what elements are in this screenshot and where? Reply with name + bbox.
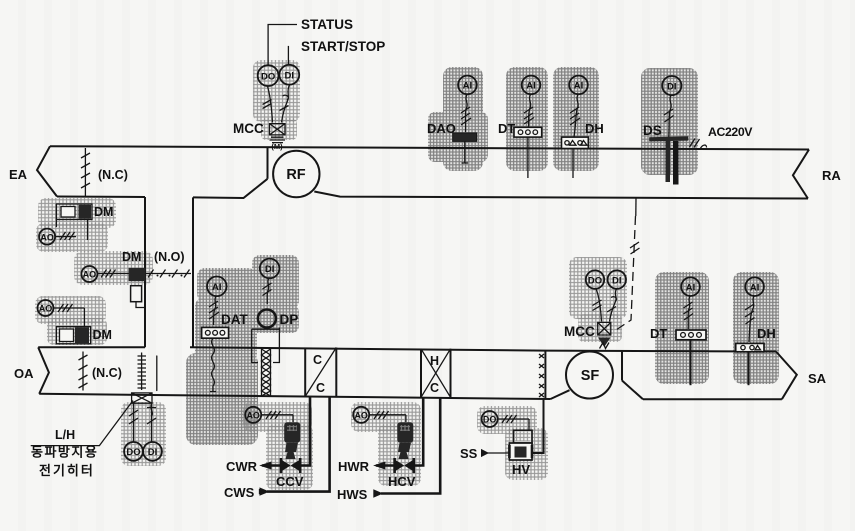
svg-text:CWR: CWR <box>226 459 258 474</box>
middle DM hatch ticks <box>148 270 190 278</box>
DT sensor box <box>514 127 542 137</box>
motor symbol SF <box>598 338 611 348</box>
svg-text:HV: HV <box>512 462 530 477</box>
DS probe bars <box>666 141 671 182</box>
svg-text:DI: DI <box>285 70 295 81</box>
HV actuator <box>514 430 532 443</box>
svg-text:AO: AO <box>354 411 368 421</box>
filter OA duct <box>262 348 271 396</box>
halo SA DT group <box>655 272 709 384</box>
DH sensor box <box>562 137 589 148</box>
svg-text:SS: SS <box>460 446 478 461</box>
svg-text:(N.C): (N.C) <box>92 366 122 380</box>
DO circle heater <box>124 442 143 461</box>
svg-text:AI: AI <box>526 81 536 92</box>
AI circle SA DT <box>681 277 700 296</box>
SF outlet diagonal <box>622 381 643 400</box>
svg-text:STATUS: STATUS <box>301 17 353 32</box>
L/H pointer <box>31 401 133 446</box>
SS arrow and line <box>481 449 489 457</box>
halo SA DH group <box>733 272 779 384</box>
AI circle DH <box>569 76 588 95</box>
svg-text:DO: DO <box>261 71 275 82</box>
halo HCV group <box>351 402 421 432</box>
SA DH probe <box>748 352 750 385</box>
svg-text:DO: DO <box>483 415 497 425</box>
RA tail notch <box>793 150 809 199</box>
svg-text:AO: AO <box>246 411 260 421</box>
SA DH sensor box <box>736 343 764 351</box>
svg-text:AO: AO <box>40 232 54 242</box>
bottom duct bottom line right <box>643 398 782 400</box>
top duct EA-RA top line <box>50 146 809 149</box>
svg-text:DT: DT <box>650 326 667 341</box>
AO hatches CCV <box>261 411 293 419</box>
svg-text:AI: AI <box>750 282 760 293</box>
CCV actuator <box>284 422 300 442</box>
svg-text:DI: DI <box>265 264 275 275</box>
DH probe <box>572 149 574 179</box>
AO circle middle <box>81 266 97 282</box>
CCV valve body <box>281 460 300 472</box>
wire START/STOP to DI <box>287 46 289 65</box>
svg-text:AC220V: AC220V <box>708 125 753 139</box>
SA DT sensor box <box>676 330 706 340</box>
AO hatches lower-left <box>54 304 85 312</box>
wire DI to MCC SF <box>610 289 617 322</box>
AO circle lower-left <box>38 300 54 316</box>
DS slashes <box>690 139 700 148</box>
svg-text:동파방지용: 동파방지용 <box>31 445 98 460</box>
HCV actuator wire <box>405 415 407 422</box>
svg-text:RA: RA <box>822 168 841 183</box>
svg-text:MCC: MCC <box>233 121 264 136</box>
DI stem DP <box>267 278 269 304</box>
heater DO stem <box>133 403 135 441</box>
DO circle RF <box>258 65 279 86</box>
svg-text:DM: DM <box>93 328 112 342</box>
svg-text:H: H <box>430 354 439 368</box>
svg-text:HWS: HWS <box>337 487 368 502</box>
svg-text:AO: AO <box>83 270 97 280</box>
halo DH group <box>553 67 599 171</box>
DI circle heater <box>143 442 162 461</box>
heating coil H/C <box>421 349 451 398</box>
bottom duct top line main <box>190 347 776 351</box>
HCV valve body <box>395 460 414 472</box>
DI circle DS <box>662 76 681 95</box>
AO hatches upper-left <box>55 232 76 240</box>
DI stem DS <box>669 95 671 137</box>
HCV bonnet <box>398 443 411 459</box>
dashed signal line RA to SF MCC <box>635 199 637 217</box>
halo HV group <box>477 406 537 434</box>
halo DAO group <box>443 67 483 171</box>
DO circle HV <box>482 411 498 427</box>
AI circle DT <box>522 76 541 95</box>
EA arrow point <box>37 146 57 196</box>
AI circle SA DH <box>745 277 764 296</box>
SF outlet vertical <box>621 351 623 381</box>
halo middle DM(N.O) group <box>74 251 153 285</box>
svg-text:AI: AI <box>463 81 473 92</box>
svg-text:HWR: HWR <box>338 459 370 474</box>
svg-text:C: C <box>316 381 325 395</box>
DI circle DP <box>260 259 280 279</box>
wire DO to MCC <box>268 86 273 122</box>
SF inlet diagonal <box>551 390 570 399</box>
lower-left DM stem <box>83 308 85 327</box>
AO circle HCV <box>353 407 369 423</box>
DAT capillary squiggle <box>210 338 216 391</box>
DP circle <box>258 310 276 328</box>
AI stem SA DH <box>749 296 754 342</box>
halo CCV group <box>243 402 312 432</box>
DAO sensor box <box>453 133 477 142</box>
svg-text:DO: DO <box>126 447 140 458</box>
AI stem DAO <box>465 94 467 132</box>
svg-text:SA: SA <box>808 371 827 386</box>
middle DM damper line <box>97 273 191 275</box>
mixing box right wall <box>192 197 194 347</box>
DO circle SF <box>586 270 604 288</box>
svg-text:C: C <box>430 381 439 395</box>
bottom duct top line left segment <box>38 346 145 348</box>
RF fan circle <box>273 151 319 197</box>
svg-text:CWS: CWS <box>224 485 255 500</box>
CWS arrow <box>260 487 270 495</box>
svg-text:C: C <box>313 353 322 367</box>
svg-text:(N.O): (N.O) <box>154 250 185 264</box>
DAO probe <box>462 141 469 163</box>
svg-text:SF: SF <box>581 368 600 384</box>
halo lower-left DM group <box>35 296 106 324</box>
bottom duct OA tail <box>38 347 49 394</box>
svg-text:DI: DI <box>148 447 158 458</box>
HWR arrow <box>376 464 395 467</box>
AI stem DAT <box>214 296 217 325</box>
AO hatches HCV <box>369 411 406 419</box>
svg-text:CCV: CCV <box>276 474 304 489</box>
svg-text:L/H: L/H <box>55 428 75 442</box>
CWS pipe <box>267 397 330 492</box>
svg-text:DM: DM <box>122 250 141 264</box>
halo DT group <box>506 67 548 171</box>
svg-text:DO: DO <box>588 275 602 286</box>
svg-text:(N.C): (N.C) <box>98 168 128 182</box>
DI circle SF <box>608 270 626 288</box>
svg-text:MCC: MCC <box>564 324 595 339</box>
AI stem DT <box>529 94 531 127</box>
upper-left DM box <box>56 204 92 220</box>
upper-left DM stem <box>87 220 89 241</box>
svg-text:DP: DP <box>280 312 299 327</box>
filter before SF <box>544 351 546 399</box>
heater element 2 <box>156 356 158 391</box>
HWS pipe <box>381 397 440 494</box>
svg-text:DI: DI <box>667 81 677 92</box>
halo top MCC group <box>253 60 300 122</box>
top duct bottom line to RF inlet <box>193 179 268 198</box>
DT probe <box>527 137 529 178</box>
svg-text:HCV: HCV <box>388 474 416 489</box>
svg-text:AO: AO <box>39 304 53 314</box>
svg-text:START/STOP: START/STOP <box>301 39 385 54</box>
svg-text:(M): (M) <box>271 142 283 151</box>
svg-text:DAT: DAT <box>221 312 248 327</box>
HCV pipe to coil <box>414 397 423 466</box>
svg-text:DM: DM <box>94 205 113 219</box>
halo heater DO DI group <box>121 402 166 466</box>
svg-text:AI: AI <box>574 81 584 92</box>
wire DI to MCC <box>282 85 290 123</box>
HV wire <box>528 419 530 430</box>
heater junction box <box>132 393 152 403</box>
AI stem SA DT <box>688 296 690 329</box>
halo upper-left DM group <box>38 198 116 228</box>
heater DI stem <box>151 403 153 441</box>
svg-text:OA: OA <box>14 366 34 381</box>
AO circle upper-left <box>39 229 55 245</box>
halo DP group <box>252 255 299 309</box>
DI circle RF <box>279 65 299 85</box>
AI stem DH <box>574 94 578 137</box>
svg-text:DT: DT <box>498 121 515 136</box>
mixing box left wall <box>144 197 146 347</box>
SA arrow point <box>776 352 797 400</box>
EA damper in duct <box>84 148 86 196</box>
HWS arrow <box>373 489 383 497</box>
halo SF MCC group <box>569 257 627 319</box>
svg-text:EA: EA <box>9 167 28 182</box>
svg-text:DH: DH <box>757 326 776 341</box>
svg-text:DS: DS <box>643 123 662 138</box>
HCV actuator <box>397 422 413 442</box>
RF inlet vertical <box>267 147 269 179</box>
middle DM actuator <box>129 268 146 281</box>
AI circle DAO <box>458 76 477 95</box>
bottom duct bottom line <box>39 394 550 399</box>
MCC RF symbol <box>270 124 286 135</box>
DO hatches HV <box>498 415 529 423</box>
DAT sensor box <box>202 327 229 338</box>
halo DS group <box>641 68 698 175</box>
HV pipe to duct <box>532 399 544 453</box>
halo DAT group <box>197 268 256 302</box>
CCV pipe to coil <box>300 397 310 466</box>
CCV bonnet <box>285 443 298 459</box>
cooling coil C/C <box>305 348 336 397</box>
svg-text:DH: DH <box>585 121 604 136</box>
svg-text:DI: DI <box>612 275 622 286</box>
heater element 1 <box>141 353 143 391</box>
CWR arrow <box>262 464 281 467</box>
svg-text:전기히터: 전기히터 <box>39 463 95 478</box>
SA DT probe <box>690 340 692 385</box>
top duct bottom line left segment <box>57 196 145 199</box>
AC220V squiggle <box>700 145 707 149</box>
svg-text:AI: AI <box>212 282 222 293</box>
AO circle CCV <box>245 407 261 423</box>
svg-text:RF: RF <box>286 167 305 183</box>
MCC SF symbol <box>598 322 611 335</box>
OA damper in duct <box>82 352 84 391</box>
DP taps <box>252 328 280 363</box>
svg-text:DAO: DAO <box>427 121 456 136</box>
CCV actuator wire <box>292 415 294 422</box>
top duct bottom after RF <box>314 192 808 199</box>
wire DO to MCC SF <box>596 289 602 322</box>
svg-text:AI: AI <box>686 282 696 293</box>
lower-left DM box <box>56 327 90 344</box>
DS plate <box>649 136 688 141</box>
SF fan circle <box>566 352 613 399</box>
AI circle DAT <box>207 277 227 297</box>
wire STATUS to DO <box>268 25 297 65</box>
HV valve body <box>509 443 532 460</box>
